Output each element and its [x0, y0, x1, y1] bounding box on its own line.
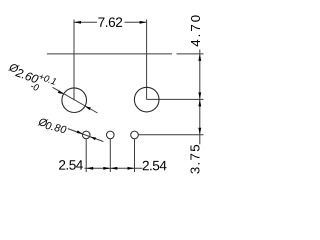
- pin hole 2: [107, 131, 115, 139]
- pin hole 3: [131, 131, 139, 139]
- bottom pin extension line 1: [85, 139, 87, 172]
- dimension 7.62 left arrow: [74, 21, 81, 24]
- bottom pin extension line 2: [109, 139, 111, 172]
- svg-text:2.54: 2.54: [58, 158, 83, 173]
- pin hole 1: [82, 131, 90, 139]
- left mounting hole circle: [62, 88, 87, 113]
- diameter text for big hole: [3, 60, 57, 97]
- mid feature line: [147, 98, 204, 100]
- svg-text:2.54: 2.54: [142, 158, 167, 173]
- dimension 7.62 line left segment: [74, 21, 97, 23]
- bottom feature line: [139, 134, 204, 136]
- diameter callout leader for pin hole: [68, 129, 104, 142]
- right dimension line (4.70 / 3.75): [199, 50, 201, 145]
- bottom dimension line: [85, 167, 143, 169]
- svg-text:7.62: 7.62: [98, 15, 123, 30]
- 2.54 span2 right arrow: [128, 167, 135, 170]
- 3.75 top arrow: [198, 99, 201, 106]
- 2.54 span1 left arrow: [86, 167, 93, 170]
- left hole centerline: [73, 20, 75, 101]
- bottom pin extension line 3: [134, 139, 136, 172]
- 3.75 bottom arrow: [198, 128, 201, 135]
- top dimension extension line (right): [177, 53, 204, 55]
- 4.70 bottom arrow: [198, 92, 201, 99]
- right mounting hole circle: [134, 87, 159, 112]
- top feature line: [47, 53, 172, 55]
- 2.54 span1 right arrow: [103, 167, 110, 170]
- right hole centerline: [146, 20, 148, 100]
- diameter text for pin hole: [36, 116, 68, 136]
- 2.54 span2 left arrow: [110, 167, 117, 170]
- dimension 7.62 line right segment: [125, 21, 147, 23]
- 4.70 top arrow: [198, 54, 201, 61]
- diameter callout leader for big hole: [53, 87, 98, 113]
- svg-text:4.70: 4.70: [188, 13, 203, 47]
- dimension 7.62 right arrow: [140, 21, 147, 24]
- svg-text:3.75: 3.75: [188, 143, 203, 174]
